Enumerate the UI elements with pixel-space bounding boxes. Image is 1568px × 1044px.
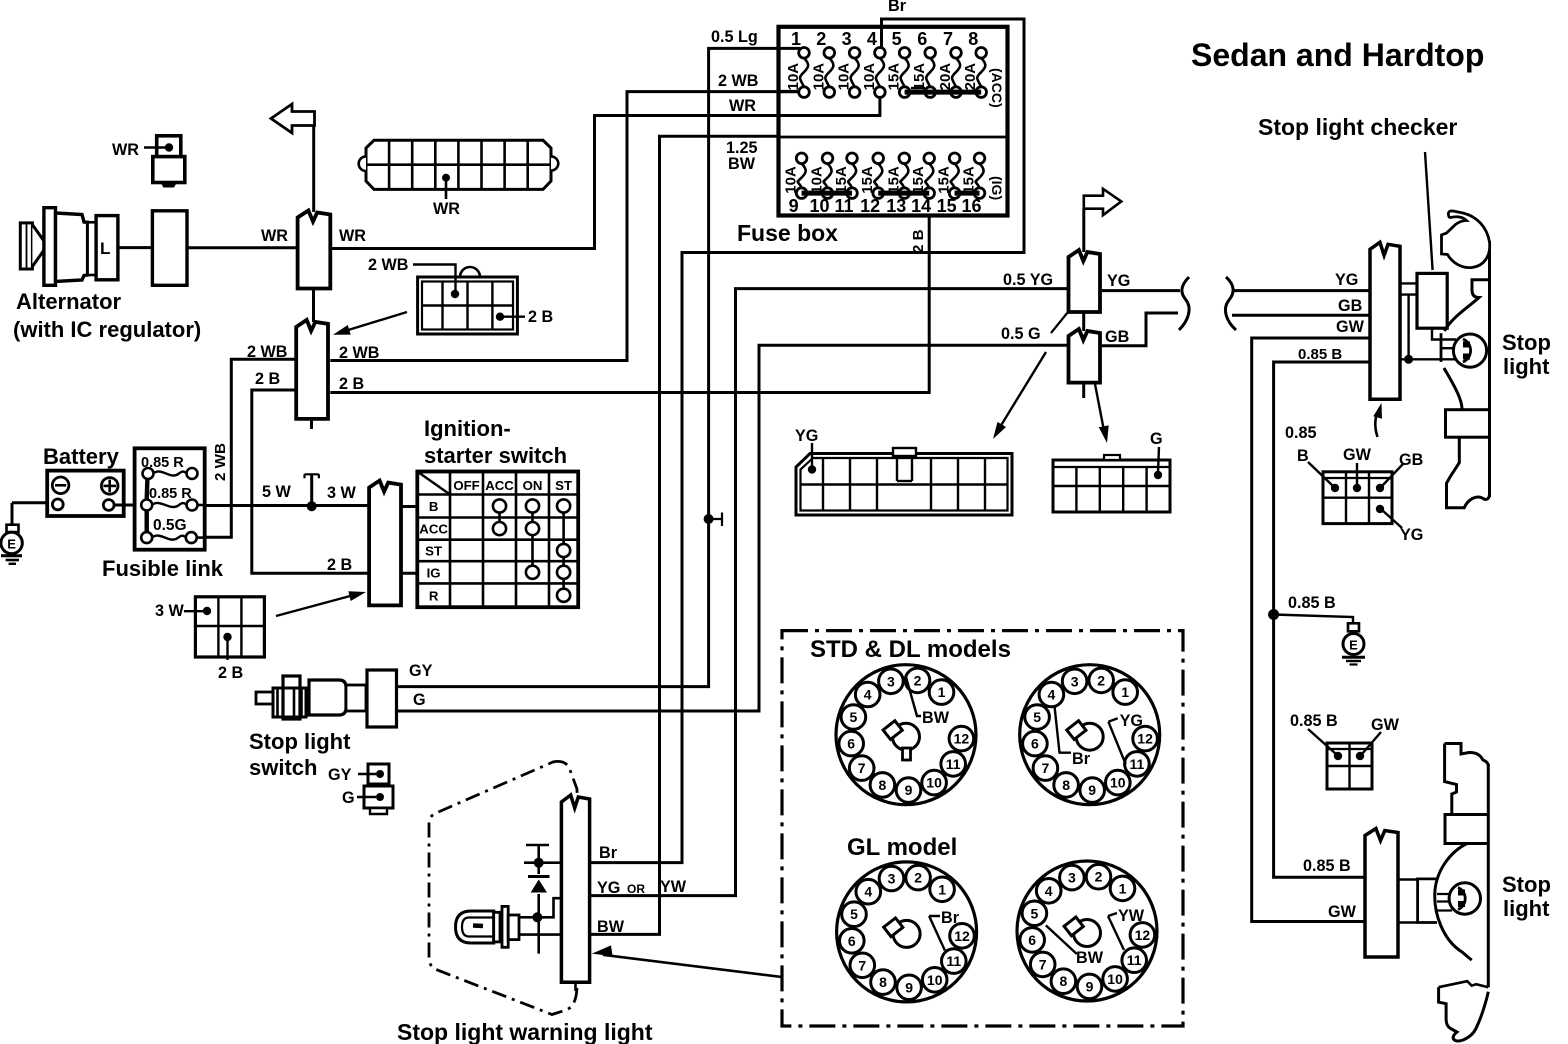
svg-text:3 W: 3 W: [327, 484, 357, 502]
svg-text:WR: WR: [729, 97, 756, 115]
svg-text:YG: YG: [1400, 526, 1423, 544]
svg-text:ON: ON: [523, 478, 543, 493]
arrow to YG connector: [997, 352, 1046, 432]
bulb warning light: [456, 906, 520, 947]
svg-text:WR: WR: [112, 141, 139, 159]
connector (3W/2B grid): [195, 597, 264, 657]
connector (alternator WR, jagged top): [298, 211, 331, 289]
svg-text:Battery: Battery: [43, 444, 120, 469]
round connector C3 (Br): [837, 862, 977, 1002]
svg-text:15A: 15A: [911, 63, 928, 91]
svg-text:GW: GW: [1328, 903, 1357, 921]
svg-text:5: 5: [1033, 709, 1041, 725]
svg-text:YG: YG: [1120, 712, 1143, 730]
label G pointer: [1158, 447, 1159, 472]
wire between connectors: [312, 289, 315, 323]
wire to bulb socket: [1400, 358, 1456, 360]
junction dot with tap: [704, 514, 714, 524]
connector WR (8x2 block): [359, 140, 559, 199]
pointer 0.5G: [1051, 312, 1068, 333]
svg-text:8: 8: [1060, 973, 1068, 989]
wire WR to connector: [187, 246, 298, 249]
svg-text:ST: ST: [425, 544, 442, 559]
svg-text:10A: 10A: [810, 63, 827, 91]
label 2WB pointer: [413, 265, 456, 291]
svg-text:20A: 20A: [937, 63, 954, 91]
svg-text:starter switch: starter switch: [424, 443, 567, 468]
svg-text:WR: WR: [261, 227, 288, 245]
curved arrow up to connector: [1375, 408, 1380, 437]
round connector C1 (BW): [836, 665, 976, 805]
wire connector to checker: [1400, 282, 1417, 284]
arrow to G connector: [1095, 384, 1105, 436]
svg-text:2 B: 2 B: [910, 229, 927, 253]
svg-text:GL model: GL model: [847, 834, 957, 861]
wire G (switch to 0.5G connector): [397, 345, 1069, 711]
wire stubs to socket: [1398, 878, 1418, 880]
battery: [47, 471, 124, 516]
fusible link: [135, 448, 205, 549]
svg-text:3: 3: [842, 29, 852, 49]
wire battery to fusible link: [114, 504, 135, 507]
svg-text:11: 11: [946, 756, 961, 772]
connector (GY/G pigtail): [357, 764, 393, 814]
svg-text:15A: 15A: [886, 63, 903, 91]
svg-text:0.5 Lg: 0.5 Lg: [711, 28, 758, 46]
arrow (hollow, pointing right): [1084, 189, 1122, 215]
svg-text:G: G: [413, 691, 426, 709]
svg-text:0.5G: 0.5G: [153, 517, 187, 534]
svg-text:YW: YW: [1118, 907, 1145, 925]
wire GB jog to break: [1100, 313, 1178, 346]
svg-text:Br: Br: [941, 909, 960, 927]
svg-text:B: B: [429, 499, 439, 514]
fuse box: [779, 27, 1008, 216]
svg-text:10: 10: [1107, 971, 1123, 987]
svg-text:9: 9: [905, 979, 913, 995]
svg-text:5: 5: [850, 906, 858, 922]
svg-text:10A: 10A: [783, 166, 800, 194]
svg-text:9: 9: [905, 782, 913, 798]
junction dot Br: [534, 858, 544, 868]
svg-text:light: light: [1503, 896, 1550, 921]
svg-text:OR: OR: [627, 882, 645, 896]
svg-text:10: 10: [926, 775, 942, 791]
svg-text:9: 9: [1086, 978, 1094, 994]
wire GY (switch to fuse box 0.5Lg riser): [397, 48, 779, 686]
round connector C4 (YW/BW): [1017, 861, 1157, 1001]
svg-text:GY: GY: [328, 766, 352, 784]
svg-text:2 B: 2 B: [528, 308, 553, 326]
svg-text:12: 12: [954, 731, 970, 747]
svg-text:OFF: OFF: [453, 478, 479, 493]
svg-text:YG: YG: [597, 879, 620, 897]
svg-text:6: 6: [848, 933, 856, 949]
svg-text:E: E: [1349, 638, 1358, 653]
arrow pointer to connector: [340, 312, 407, 333]
wire GW (top stop light to bottom stop light): [1252, 338, 1370, 922]
stop light checker box: [1417, 273, 1447, 328]
wire Br to connector: [524, 861, 561, 864]
svg-text:IG: IG: [427, 565, 441, 580]
svg-text:0.85 R: 0.85 R: [141, 455, 184, 471]
label 2B pointer: [226, 637, 228, 660]
junction dot: [1404, 355, 1413, 364]
svg-text:4: 4: [864, 884, 872, 900]
harness break squiggles: [1179, 277, 1189, 330]
svg-text:WR: WR: [339, 227, 366, 245]
svg-text:6: 6: [1031, 736, 1039, 752]
alternator (with IC regulator): [20, 208, 118, 286]
wire arrow stem: [1082, 209, 1085, 252]
connector (2WB/2B, jagged top): [296, 320, 328, 419]
svg-text:8: 8: [1062, 777, 1070, 793]
svg-text:15A: 15A: [910, 166, 927, 194]
svg-text:Stop light checker: Stop light checker: [1258, 114, 1457, 140]
connector (B/GW/GB/YG grid): [1323, 472, 1392, 524]
svg-text:7: 7: [943, 29, 953, 49]
wire BW (warning light to fuse box 1.25BW): [590, 136, 779, 934]
connector warning light (jagged top, tall): [561, 795, 589, 982]
svg-text:1: 1: [1121, 684, 1129, 700]
wire to ground: [1274, 615, 1353, 624]
round connector C2 (YG/Br): [1020, 665, 1160, 805]
svg-text:BW: BW: [922, 709, 950, 727]
svg-text:2 WB: 2 WB: [212, 443, 229, 481]
svg-text:GW: GW: [1343, 446, 1372, 464]
STD & DL models box (dash-dot): [782, 631, 1183, 1026]
svg-text:4: 4: [864, 687, 872, 703]
connector YG (8x2 block): [796, 448, 1012, 515]
dashed boundary warning light: [429, 761, 577, 1014]
arrow grid to ignition connector: [276, 596, 352, 617]
arrow STD box to connector: [603, 955, 782, 977]
svg-text:GY: GY: [409, 662, 433, 680]
svg-text:2: 2: [1097, 672, 1105, 688]
svg-text:4: 4: [1048, 687, 1056, 703]
svg-text:5: 5: [1031, 905, 1039, 921]
svg-text:15A: 15A: [833, 166, 850, 194]
stop light switch: [256, 670, 397, 727]
arrow (hollow, pointing left): [271, 104, 315, 133]
svg-text:4: 4: [867, 29, 877, 49]
svg-text:10A: 10A: [861, 63, 878, 91]
svg-text:E: E: [7, 537, 16, 552]
svg-text:light: light: [1503, 354, 1550, 379]
svg-text:8: 8: [968, 29, 978, 49]
svg-text:12: 12: [1135, 927, 1151, 943]
svg-text:3 W: 3 W: [155, 602, 185, 620]
svg-text:7: 7: [858, 957, 866, 973]
svg-text:2 B: 2 B: [218, 664, 243, 682]
svg-text:Stop: Stop: [1502, 872, 1551, 897]
svg-text:6: 6: [847, 736, 855, 752]
svg-text:7: 7: [1042, 760, 1050, 776]
svg-text:Alternator: Alternator: [16, 289, 122, 314]
svg-text:(IG): (IG): [989, 176, 1005, 200]
svg-text:2: 2: [1095, 869, 1103, 885]
wire Br (fuse 4 to warning light): [590, 19, 1025, 863]
svg-text:10A: 10A: [785, 63, 802, 91]
svg-text:0.85 B: 0.85 B: [1290, 712, 1338, 730]
junction dot to YG row: [532, 912, 542, 922]
bulb socket lower: [1418, 879, 1437, 923]
wire stub below connector2: [1082, 383, 1085, 398]
label 3 W pointer: [184, 610, 204, 612]
connector stop light (jagged top, tall): [1370, 242, 1400, 399]
svg-text:GB: GB: [1105, 328, 1129, 346]
junction dot ground tap: [1268, 609, 1279, 620]
svg-text:L: L: [100, 239, 110, 258]
svg-text:2 WB: 2 WB: [718, 72, 758, 90]
svg-text:Fuse box: Fuse box: [737, 220, 838, 246]
svg-text:15A: 15A: [961, 166, 978, 194]
svg-text:0.5 G: 0.5 G: [1001, 325, 1041, 343]
svg-text:Fusible link: Fusible link: [102, 556, 224, 581]
svg-text:15A: 15A: [859, 166, 876, 194]
ignition-starter switch table: [417, 472, 578, 608]
label 2B pointer: [500, 316, 525, 318]
svg-text:Stop: Stop: [1502, 330, 1551, 355]
svg-text:1: 1: [1119, 880, 1127, 896]
svg-text:2 B: 2 B: [327, 556, 352, 574]
svg-text:1: 1: [938, 881, 946, 897]
svg-text:GB: GB: [1338, 297, 1362, 315]
svg-text:2: 2: [914, 672, 922, 688]
wire bulb contacts: [519, 916, 535, 919]
bus bar fuses 5-8: [905, 90, 982, 95]
svg-text:7: 7: [1039, 956, 1047, 972]
wire alternator L to connector block: [118, 246, 152, 249]
svg-text:9: 9: [1088, 782, 1096, 798]
wire 5W/3W battery feed: [12, 501, 47, 504]
connector G (5x2 block): [1053, 455, 1170, 512]
svg-text:0.85 B: 0.85 B: [1288, 594, 1336, 612]
svg-text:10: 10: [1110, 775, 1126, 791]
svg-text:10A: 10A: [809, 166, 826, 194]
label YG pointer: [811, 443, 813, 466]
svg-text:2 B: 2 B: [255, 370, 280, 388]
svg-text:0.5 YG: 0.5 YG: [1003, 271, 1053, 289]
ground E (battery): [1, 503, 22, 564]
wire IG row to table: [401, 572, 417, 575]
svg-text:YG: YG: [1335, 271, 1358, 289]
svg-text:YW: YW: [660, 878, 687, 896]
svg-text:9: 9: [789, 196, 799, 216]
svg-text:5: 5: [892, 29, 902, 49]
svg-text:3: 3: [888, 871, 896, 887]
svg-text:4: 4: [1045, 883, 1053, 899]
wire B row to table: [401, 505, 417, 508]
svg-text:3: 3: [1071, 673, 1079, 689]
svg-text:ST: ST: [555, 478, 572, 493]
svg-text:0.85: 0.85: [1285, 424, 1317, 442]
svg-text:Br: Br: [1072, 750, 1091, 768]
svg-text:(with IC regulator): (with IC regulator): [13, 317, 201, 342]
wire stub below connector: [310, 419, 313, 429]
svg-text:6: 6: [917, 29, 927, 49]
svg-text:15A: 15A: [936, 166, 953, 194]
svg-text:Ignition-: Ignition-: [424, 416, 511, 441]
svg-text:5: 5: [850, 709, 858, 725]
svg-text:3: 3: [1068, 870, 1076, 886]
svg-text:YG: YG: [795, 427, 818, 445]
wire YG (warning light to 0.5YG connector): [590, 289, 1069, 896]
svg-text:15A: 15A: [885, 166, 902, 194]
wire 2B (fuse box to connector): [330, 216, 929, 393]
connector stop light lower (jagged top): [1365, 829, 1398, 958]
svg-text:ACC: ACC: [485, 478, 514, 493]
svg-text:1: 1: [791, 29, 801, 49]
svg-text:B: B: [1297, 447, 1309, 465]
svg-text:1: 1: [938, 684, 946, 700]
connector block (plain rect): [152, 211, 187, 285]
svg-text:2 B: 2 B: [339, 375, 364, 393]
svg-text:6: 6: [1028, 932, 1036, 948]
connector WR (small icon): [144, 136, 185, 188]
wire WR (connector to fuse box): [330, 116, 778, 249]
svg-text:5 W: 5 W: [262, 483, 292, 501]
ground E (right): [1342, 623, 1365, 664]
svg-text:0.85 B: 0.85 B: [1303, 857, 1351, 875]
svg-text:12: 12: [954, 928, 970, 944]
bulb (lower stop light): [1449, 883, 1480, 914]
bus bars lower row: [802, 191, 852, 196]
wire GB break to stop light connector: [1232, 314, 1370, 317]
socket bar: [1440, 333, 1443, 362]
wire 2WB (connector to fusible link): [205, 359, 297, 537]
bulb (top stop light): [1453, 334, 1486, 367]
svg-text:12: 12: [1137, 731, 1153, 747]
wire arrow stem down to connector: [312, 126, 315, 213]
svg-text:WR: WR: [433, 200, 460, 218]
svg-text:11: 11: [1127, 952, 1142, 968]
svg-text:GW: GW: [1336, 318, 1365, 336]
svg-text:3: 3: [887, 673, 895, 689]
wire jog to YG row: [537, 898, 561, 917]
svg-text:10A: 10A: [836, 63, 853, 91]
svg-text:Br: Br: [599, 844, 618, 862]
svg-text:YG: YG: [1107, 272, 1130, 290]
svg-text:(ACC): (ACC): [989, 68, 1005, 108]
diode: [528, 875, 550, 878]
svg-text:2: 2: [914, 870, 922, 886]
check branch vertical: [537, 845, 540, 954]
svg-text:Br: Br: [888, 0, 907, 15]
svg-text:2: 2: [816, 29, 826, 49]
stop light housing (top): [1442, 211, 1490, 508]
svg-text:BW: BW: [728, 155, 756, 173]
svg-text:0.85 B: 0.85 B: [1298, 346, 1342, 363]
wire YG to break: [1100, 289, 1180, 292]
svg-text:ACC: ACC: [419, 522, 448, 537]
svg-text:8: 8: [879, 777, 887, 793]
pointer line from checker label: [1425, 152, 1433, 270]
stop light housing (lower): [1435, 744, 1489, 1042]
svg-text:7: 7: [858, 760, 866, 776]
svg-text:GW: GW: [1371, 716, 1400, 734]
connector (0.85B/GW 2x2 grid): [1327, 743, 1372, 789]
svg-text:Sedan and Hardtop: Sedan and Hardtop: [1191, 37, 1484, 73]
svg-text:11: 11: [946, 953, 961, 969]
svg-text:switch: switch: [249, 755, 317, 780]
svg-text:G: G: [1150, 430, 1163, 448]
svg-text:11: 11: [1129, 756, 1144, 772]
svg-text:BW: BW: [597, 918, 625, 936]
svg-text:STD & DL models: STD & DL models: [810, 636, 1011, 663]
svg-text:2 WB: 2 WB: [368, 256, 408, 274]
wire 0.85B (top stop light, ground, bottom stop light): [1274, 362, 1370, 877]
svg-text:G: G: [342, 789, 355, 807]
wire 2B (connector to ignition connector): [252, 390, 369, 573]
connector (8-cell block): [418, 267, 518, 334]
wire 2WB (fuse box to connector): [330, 92, 778, 361]
svg-text:BW: BW: [1076, 949, 1104, 967]
svg-text:10: 10: [927, 972, 943, 988]
svg-text:8: 8: [879, 974, 887, 990]
svg-text:Stop light: Stop light: [249, 729, 351, 754]
connector 0.5G/GB (jagged top): [1069, 329, 1101, 383]
svg-text:0.85 R: 0.85 R: [149, 486, 192, 502]
wire YG break to stop light connector: [1233, 289, 1370, 292]
junction dot 3W: [307, 501, 317, 511]
connector (ignition feed, jagged top): [369, 481, 401, 606]
svg-text:R: R: [429, 588, 439, 603]
wire connector1 to connector2: [1082, 312, 1085, 331]
svg-text:GB: GB: [1399, 451, 1423, 469]
connector 0.5YG/YG (jagged top): [1069, 250, 1101, 312]
svg-text:Stop light warning light: Stop light warning light: [397, 1019, 653, 1044]
svg-text:20A: 20A: [962, 63, 979, 91]
